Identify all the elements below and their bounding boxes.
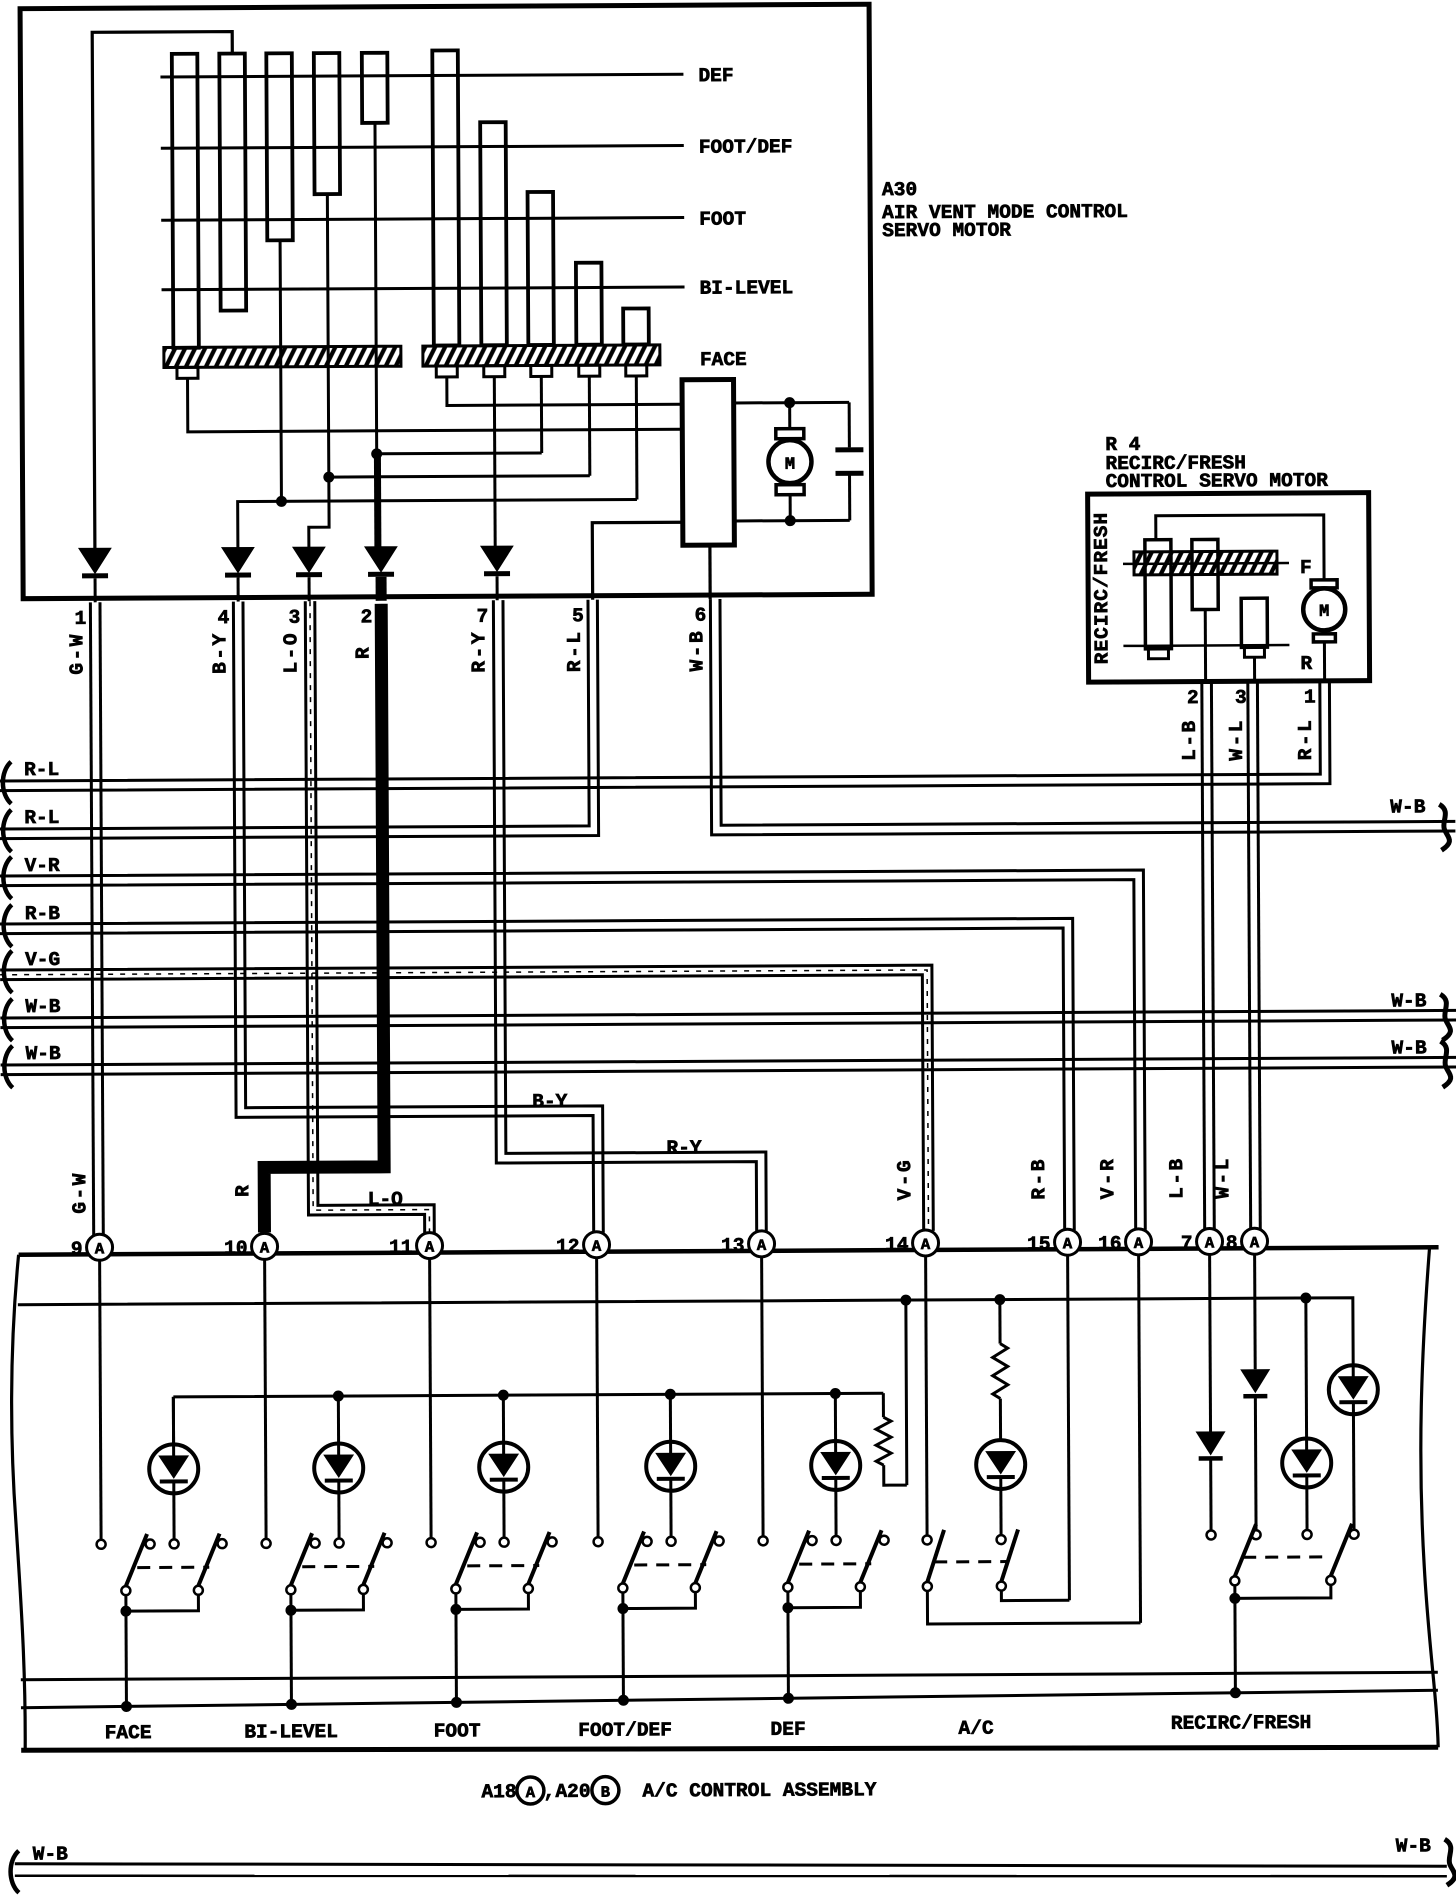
svg-text:W-L: W-L xyxy=(1212,1156,1234,1199)
contact bar R4-3 xyxy=(1241,598,1267,681)
svg-text:A/C CONTROL ASSEMBLY: A/C CONTROL ASSEMBLY xyxy=(642,1779,876,1802)
label W-B run2 right xyxy=(1391,1037,1427,1059)
label W-B bottom right xyxy=(1396,1835,1432,1857)
label R-L at R4 pin1 xyxy=(1295,718,1317,761)
switch FACE xyxy=(95,1259,227,1712)
svg-text:R-L: R-L xyxy=(24,807,59,829)
pin 3 of A30 xyxy=(289,607,301,629)
wire pin5 to block xyxy=(592,522,683,599)
assembly box bottom edge xyxy=(21,1743,1438,1755)
svg-text:A: A xyxy=(1205,1234,1215,1252)
wiper foot R4 xyxy=(579,365,600,376)
svg-text:RECIRC/FRESH: RECIRC/FRESH xyxy=(1091,512,1114,665)
label FOOT assembly xyxy=(434,1720,481,1742)
label L-O at pin 3 xyxy=(280,631,302,674)
label V-R lower xyxy=(1097,1157,1119,1200)
connector 16 circled A xyxy=(1098,1229,1152,1255)
brace V-R left xyxy=(3,857,11,899)
brace R-L run1 left xyxy=(3,762,11,804)
svg-text:A: A xyxy=(1250,1234,1260,1252)
label V-G lower xyxy=(894,1158,916,1201)
svg-text:A: A xyxy=(526,1784,536,1802)
wire L-O pin3 to connector 11 xyxy=(305,601,434,1235)
wire pin1 feed to contact bar L2 xyxy=(92,32,235,549)
contact bar R2 xyxy=(480,122,507,345)
label A30 title xyxy=(882,178,1128,242)
wire F line xyxy=(1123,562,1289,565)
svg-text:15: 15 xyxy=(1027,1233,1051,1255)
contact bar L5 xyxy=(362,53,388,123)
wire B-Y pin4 to connector 12 xyxy=(233,600,603,1235)
A30 air vent mode control servo motor box xyxy=(20,4,872,598)
contact bar L4 xyxy=(314,53,340,194)
wire illumination bus xyxy=(18,1292,1353,1383)
svg-text:BI-LEVEL: BI-LEVEL xyxy=(244,1721,338,1743)
svg-text:2: 2 xyxy=(361,606,373,628)
assembly box left torn edge xyxy=(11,1255,26,1751)
LED FOOT xyxy=(479,1395,529,1538)
contact bar R4-1 xyxy=(1145,540,1172,659)
connector block xyxy=(682,379,734,545)
label RECIRC/FRESH assembly xyxy=(1171,1712,1312,1735)
contact bar R1 xyxy=(432,50,459,345)
diode D2 xyxy=(222,547,254,601)
svg-text:W-B: W-B xyxy=(1390,796,1426,818)
svg-text:8: 8 xyxy=(1226,1232,1238,1254)
brace W-B run1 right xyxy=(1440,994,1450,1040)
svg-text:3: 3 xyxy=(289,607,301,629)
wire W-B bottom xyxy=(15,1856,1447,1883)
label F xyxy=(1300,557,1312,579)
wiper foot R3 xyxy=(531,365,552,376)
wire V-G run to connector 14 xyxy=(0,965,933,1236)
contact bar R5 xyxy=(623,308,649,344)
pin 5 of A30 xyxy=(572,605,584,627)
motor M R4 xyxy=(1303,580,1346,681)
label A/C assembly xyxy=(958,1718,994,1740)
svg-text:5: 5 xyxy=(572,605,584,627)
svg-text:A30: A30 xyxy=(882,179,917,201)
svg-text:A: A xyxy=(260,1239,270,1257)
resistor DEF bypass xyxy=(875,1300,906,1485)
brace W-B run2 right xyxy=(1440,1041,1450,1087)
wire block to motor bottom xyxy=(734,515,850,527)
wiper foot L1 xyxy=(177,367,198,378)
svg-text:12: 12 xyxy=(556,1236,580,1258)
diode D4 xyxy=(365,547,397,601)
wire foot R2 to diode D5 xyxy=(493,377,497,546)
label W-B run1 left xyxy=(25,996,61,1018)
label R xyxy=(1300,653,1312,675)
svg-text:FOOT: FOOT xyxy=(699,208,746,230)
pin 2 of R4 xyxy=(1187,687,1199,709)
label W-B pin6 right xyxy=(1390,796,1426,818)
svg-text:B: B xyxy=(601,1784,610,1802)
wire R-L pin5 to left edge xyxy=(0,600,599,839)
label W-B bottom left xyxy=(33,1843,69,1865)
svg-text:L-O: L-O xyxy=(368,1189,404,1211)
switch FOOT xyxy=(425,1257,557,1708)
wire bar L3 to diode D2 xyxy=(236,238,637,547)
svg-text:A: A xyxy=(95,1240,105,1258)
label W-L lower xyxy=(1212,1156,1234,1199)
svg-text:W-B: W-B xyxy=(25,996,61,1018)
connector 12 circled A xyxy=(556,1232,610,1258)
svg-text:FACE: FACE xyxy=(700,349,747,371)
wire LED anode bus xyxy=(173,1388,883,1446)
svg-text:R: R xyxy=(232,1184,254,1197)
wire FOOT position line xyxy=(161,218,684,221)
brace V-G left xyxy=(4,951,12,993)
svg-text:R-L: R-L xyxy=(1295,718,1317,761)
LED BI-LEVEL xyxy=(314,1396,364,1539)
svg-text:1: 1 xyxy=(75,608,87,630)
label W-B at pin 6 xyxy=(686,629,708,672)
LED A/C xyxy=(976,1440,1025,1535)
svg-text:A18: A18 xyxy=(481,1781,516,1803)
caption A/C control assembly xyxy=(481,1775,876,1804)
LED RECIRC 1 xyxy=(1281,1298,1331,1531)
wire W-L R4 pin3 to connector 8 xyxy=(1248,681,1260,1229)
svg-text:L-B: L-B xyxy=(1179,718,1201,761)
brace R-L run2 left xyxy=(3,810,11,852)
label R-B run xyxy=(25,903,61,925)
svg-text:FOOT: FOOT xyxy=(434,1720,481,1742)
wire foot R3 down xyxy=(540,376,543,452)
LED FACE xyxy=(149,1397,199,1540)
svg-text:L-B: L-B xyxy=(1166,1156,1188,1199)
label W-B run2 left xyxy=(25,1043,61,1065)
svg-text:1: 1 xyxy=(1304,686,1316,708)
svg-text:W-B: W-B xyxy=(1391,1037,1427,1059)
svg-text:13: 13 xyxy=(721,1235,745,1257)
label R-L run2 xyxy=(24,807,59,829)
switch FOOT/DEF xyxy=(592,1256,724,1706)
svg-text:R: R xyxy=(352,645,374,659)
svg-text:11: 11 xyxy=(389,1237,413,1259)
svg-text:,: , xyxy=(543,1781,555,1803)
label L-B lower xyxy=(1166,1156,1188,1199)
label FOOT xyxy=(699,208,746,230)
pin 7 of A30 xyxy=(477,606,489,628)
brace W-B pin6 right xyxy=(1439,804,1449,850)
svg-text:4: 4 xyxy=(218,607,230,629)
motor M A30 xyxy=(768,403,812,521)
svg-text:R: R xyxy=(1300,653,1312,675)
wire FOOT/DEF position line xyxy=(161,146,684,149)
label FACE xyxy=(700,349,747,371)
label R-L at pin 5 xyxy=(564,629,586,672)
wire assembly upper bus xyxy=(21,1672,1438,1679)
connector 9 circled A xyxy=(71,1234,113,1260)
connector 14 circled A xyxy=(885,1230,939,1256)
diode at connector 7 xyxy=(1195,1253,1226,1530)
svg-text:6: 6 xyxy=(694,605,706,627)
svg-text:L-O: L-O xyxy=(280,631,302,674)
pin 2 of A30 xyxy=(361,606,373,628)
label R lower xyxy=(232,1184,254,1197)
svg-text:2: 2 xyxy=(1187,687,1199,709)
R4 recirc/fresh control servo motor box xyxy=(1088,493,1370,682)
brace W-B run1 left xyxy=(4,999,12,1041)
assembly box top edge xyxy=(19,1247,1439,1254)
svg-text:W-L: W-L xyxy=(1226,718,1248,761)
pin 1 of A30 xyxy=(75,608,87,630)
svg-text:F: F xyxy=(1300,557,1312,579)
wire V-R run to connector 16 xyxy=(0,870,1145,1236)
wiper foot R2 xyxy=(484,366,505,377)
wire bar L5 to diode D4 xyxy=(369,122,542,547)
label R4 title xyxy=(1105,433,1328,493)
label W-L at R4 pin3 xyxy=(1226,718,1248,761)
wire W-B pin6 to right edge xyxy=(710,595,1455,835)
svg-text:A/C: A/C xyxy=(958,1718,994,1740)
svg-text:M: M xyxy=(785,456,795,475)
label R-Y at pin 7 xyxy=(468,630,490,673)
wire foot R5 down xyxy=(635,376,639,499)
svg-text:A: A xyxy=(1063,1235,1073,1253)
svg-text:R-Y: R-Y xyxy=(666,1137,702,1159)
contact bar R3 xyxy=(528,192,554,345)
contact bar L3 xyxy=(266,53,292,240)
svg-text:R-L: R-L xyxy=(24,759,59,781)
switch A/C xyxy=(921,1254,1140,1624)
svg-text:W-B: W-B xyxy=(1396,1835,1432,1857)
wire R-B run to connector 15 xyxy=(0,918,1074,1235)
svg-text:16: 16 xyxy=(1098,1233,1122,1255)
label BI-LEVEL assembly xyxy=(244,1721,338,1743)
contact bar R4 xyxy=(576,263,602,345)
svg-text:V-G: V-G xyxy=(25,949,60,971)
resistor A/C xyxy=(992,1300,1008,1440)
wire R pin2 to connector 10 xyxy=(261,604,384,1233)
wire G-W pin1 to connector 9 xyxy=(90,602,103,1235)
wiper strip R4 xyxy=(1134,551,1277,575)
contact bar L2 xyxy=(219,54,246,311)
svg-text:CONTROL SERVO MOTOR: CONTROL SERVO MOTOR xyxy=(1106,470,1329,493)
wire R4 top link xyxy=(1156,515,1324,581)
svg-text:SERVO MOTOR: SERVO MOTOR xyxy=(882,220,1011,243)
wire R line xyxy=(1123,644,1289,647)
label DEF assembly xyxy=(770,1719,805,1741)
label R-L run1 xyxy=(24,759,59,781)
diode at connector 8 xyxy=(1240,1253,1271,1530)
svg-text:A: A xyxy=(425,1239,435,1257)
svg-text:V-G: V-G xyxy=(894,1158,916,1201)
switch BI-LEVEL xyxy=(260,1258,392,1710)
LED RECIRC 2 xyxy=(1329,1365,1379,1530)
label L-B at R4 pin2 xyxy=(1179,718,1201,761)
svg-text:DEF: DEF xyxy=(770,1719,805,1741)
wiper foot R5 xyxy=(626,365,647,376)
label B-Y lower xyxy=(532,1091,568,1113)
label B-Y at pin 4 xyxy=(209,631,231,674)
wire W-B run2 xyxy=(1,1057,1456,1074)
wire block to motor top xyxy=(734,397,850,409)
label DEF xyxy=(698,65,733,87)
label L-O lower xyxy=(368,1189,404,1211)
wiper strip left xyxy=(164,346,401,367)
label W-B run1 right xyxy=(1391,990,1427,1012)
svg-text:A20: A20 xyxy=(555,1781,590,1803)
label V-G run xyxy=(25,949,60,971)
brace R-B left xyxy=(4,905,12,947)
svg-text:W-B: W-B xyxy=(33,1843,69,1865)
svg-text:R-B: R-B xyxy=(25,903,61,925)
diode D1 xyxy=(79,548,111,602)
label R at pin 2 xyxy=(352,645,374,659)
svg-text:V-R: V-R xyxy=(25,855,61,877)
svg-text:W-B: W-B xyxy=(25,1043,61,1065)
brace W-B bottom left xyxy=(10,1851,18,1893)
svg-text:FOOT/DEF: FOOT/DEF xyxy=(699,136,793,158)
svg-text:W-B: W-B xyxy=(686,629,708,672)
wire bar L4 to diode D3 xyxy=(307,193,590,547)
wire L-B R4 pin2 to connector 7 xyxy=(1202,681,1214,1229)
label V-R run xyxy=(25,855,61,877)
wiper strip right xyxy=(423,345,660,366)
wire foot R1 to connector block xyxy=(447,376,682,406)
label G-W at pin 1 xyxy=(66,632,88,675)
label BI-LEVEL xyxy=(699,277,793,299)
pin 3 of R4 xyxy=(1235,687,1247,709)
label FOOT/DEF assembly xyxy=(578,1719,672,1741)
brace W-B run2 left xyxy=(4,1046,12,1088)
LED DEF xyxy=(811,1393,861,1536)
svg-text:A: A xyxy=(1134,1235,1144,1253)
pin 4 of A30 xyxy=(218,607,230,629)
connector 13 circled A xyxy=(721,1231,775,1257)
label G-W lower xyxy=(69,1171,91,1214)
connector 10 circled A xyxy=(224,1233,278,1259)
svg-text:R-Y: R-Y xyxy=(468,630,490,673)
contact bar L1 xyxy=(172,54,199,348)
connector 8 circled A xyxy=(1226,1228,1268,1254)
label R-Y lower xyxy=(666,1137,702,1159)
capacitor C1 xyxy=(835,402,864,520)
svg-text:3: 3 xyxy=(1235,687,1247,709)
svg-text:7: 7 xyxy=(1181,1233,1193,1255)
connector 11 circled A xyxy=(389,1232,443,1258)
svg-text:M: M xyxy=(1319,603,1329,622)
svg-text:R-B: R-B xyxy=(1028,1157,1050,1200)
svg-text:B-Y: B-Y xyxy=(532,1091,568,1113)
wire bar L1 foot to connector block xyxy=(188,376,683,432)
label FACE assembly xyxy=(105,1722,152,1744)
svg-text:10: 10 xyxy=(224,1238,248,1260)
wire pin6 from block bottom xyxy=(708,545,711,599)
svg-text:R-L: R-L xyxy=(564,629,586,672)
wire DEF position line xyxy=(160,74,683,77)
svg-text:FOOT/DEF: FOOT/DEF xyxy=(578,1719,672,1741)
svg-text:A: A xyxy=(921,1236,931,1254)
svg-text:DEF: DEF xyxy=(698,65,733,87)
diode D5 xyxy=(481,546,513,600)
svg-text:RECIRC/FRESH: RECIRC/FRESH xyxy=(1171,1712,1312,1735)
label R-B lower xyxy=(1028,1157,1050,1200)
wire W-B run1 xyxy=(0,1010,1456,1027)
wire foot R4 down xyxy=(588,376,592,475)
connector 15 circled A xyxy=(1027,1229,1081,1255)
wiper foot R1 xyxy=(436,366,457,377)
svg-text:B-Y: B-Y xyxy=(209,631,231,674)
LED FOOT/DEF xyxy=(646,1394,696,1537)
connector 7 circled A xyxy=(1181,1228,1223,1254)
label RECIRC/FRESH vertical xyxy=(1091,512,1114,665)
label FOOT/DEF xyxy=(699,136,793,158)
svg-text:FACE: FACE xyxy=(105,1722,152,1744)
svg-text:9: 9 xyxy=(71,1238,83,1260)
svg-text:A: A xyxy=(757,1237,767,1255)
switch DEF xyxy=(757,1255,889,1704)
wire BI-LEVEL position line xyxy=(162,287,685,290)
wire assembly ground bus xyxy=(21,1690,1438,1707)
pin 6 of A30 xyxy=(694,605,706,627)
svg-text:V-R: V-R xyxy=(1097,1157,1119,1200)
svg-text:G-W: G-W xyxy=(69,1171,91,1214)
svg-text:G-W: G-W xyxy=(66,632,88,675)
svg-text:14: 14 xyxy=(885,1234,909,1256)
contact bar R4-2 xyxy=(1192,539,1219,681)
wire R-Y pin7 to connector 13 xyxy=(493,599,766,1233)
svg-text:W-B: W-B xyxy=(1391,990,1427,1012)
svg-text:BI-LEVEL: BI-LEVEL xyxy=(699,277,793,299)
switch RECIRC/FRESH xyxy=(1207,1524,1360,1699)
svg-text:7: 7 xyxy=(477,606,489,628)
wire R-L R4 pin1 to left edge xyxy=(0,681,1330,791)
pin 1 of R4 xyxy=(1304,686,1316,708)
svg-text:A: A xyxy=(592,1238,602,1256)
assembly box right torn edge xyxy=(1420,1247,1438,1747)
diode D3 xyxy=(293,547,325,601)
brace W-B bottom right xyxy=(1445,1839,1455,1885)
